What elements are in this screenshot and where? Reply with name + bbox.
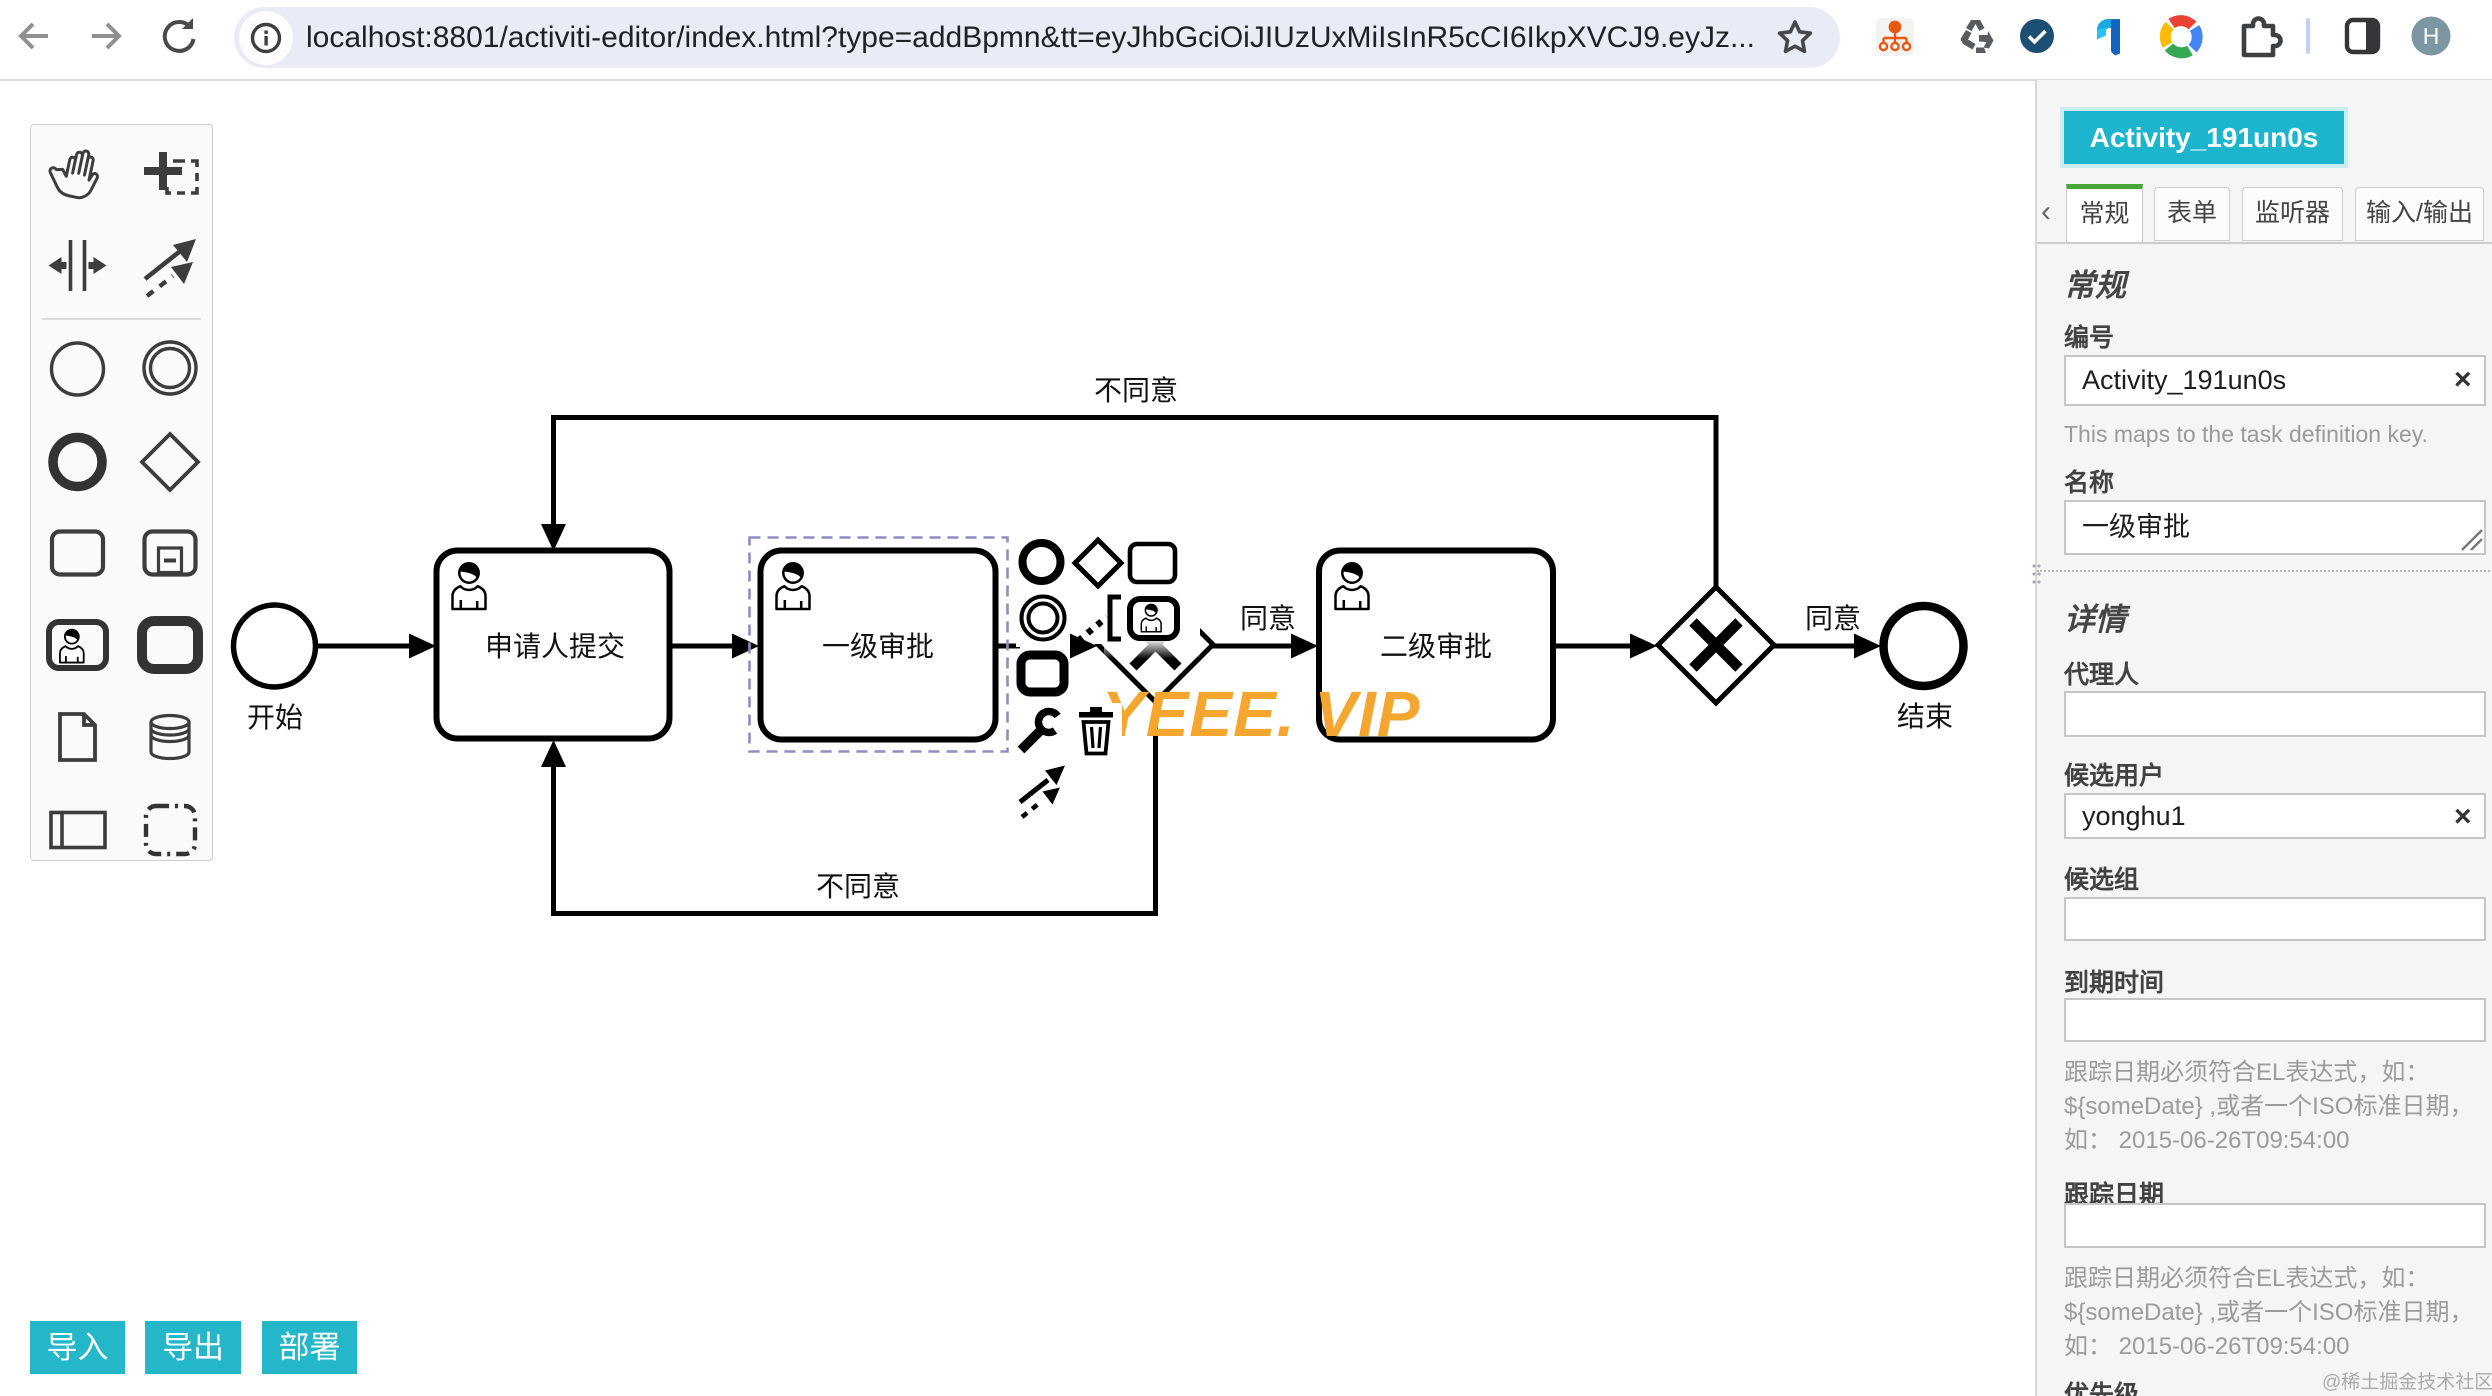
panel divider drag handle dots — [2030, 560, 2042, 590]
extension icon: org-chart (orange) — [1876, 18, 1914, 56]
palette: create participant — [51, 813, 105, 848]
section 详情 — [2064, 594, 2126, 639]
ctx: wrench (replace) — [1021, 711, 1058, 750]
user task 二级审批 — [1319, 551, 1553, 740]
palette: create user task — [49, 622, 106, 668]
ctx: trash (delete) — [1079, 707, 1113, 754]
section 常规 — [2064, 260, 2126, 305]
hint text 1 — [2064, 1056, 2492, 1158]
palette: create group — [146, 806, 195, 854]
forward arrow — [92, 24, 119, 48]
palette: create intermediate event — [144, 342, 196, 394]
field 到期时间 — [2064, 963, 2164, 999]
info icon in white circle — [239, 11, 293, 65]
field 编号 — [2064, 318, 2114, 354]
extension icon: chrome color wheel — [2165, 21, 2197, 53]
ctx: append end event — [1023, 543, 1061, 581]
palette tool: hand — [46, 145, 103, 201]
extension icon: recycle (grey) — [1961, 20, 1994, 53]
palette tool: lasso — [144, 152, 197, 193]
juejin watermark — [2322, 1367, 2492, 1394]
sequence flow: 二级审批 -> gateway2 — [1553, 634, 1657, 659]
ctx: append gateway — [1075, 540, 1121, 586]
svg-text:不同意: 不同意 — [1094, 375, 1178, 406]
sequence flow 不同意: gateway1 -> bottom -> 申请人提交 — [541, 700, 1156, 914]
extensions puzzle icon — [2244, 19, 2281, 56]
sequence flow 同意: gateway1 -> 二级审批 — [1212, 634, 1318, 659]
end event 结束 — [1884, 606, 1964, 686]
field 跟踪日期 — [2064, 1175, 2164, 1211]
field 代理人 — [2064, 655, 2139, 691]
svg-text:YEEE. VIP: YEEE. VIP — [1102, 678, 1420, 750]
user task 申请人提交 — [437, 551, 670, 739]
ctx: append task — [1130, 544, 1175, 582]
palette: create task — [52, 532, 103, 575]
field 候选组 — [2064, 860, 2139, 896]
hint text 2 — [2064, 1262, 2492, 1364]
header badge — [2064, 111, 2344, 164]
tab collapse chevron — [2041, 195, 2051, 229]
sequence flow: 申请人提交 -> 一级审批 — [670, 634, 759, 659]
bookmark star — [1780, 22, 1811, 51]
exclusive gateway 1 — [1098, 587, 1213, 702]
field 优先级 (cut off) — [2064, 1375, 2139, 1396]
selection outline (dashed) around 一级审批 — [750, 538, 1008, 752]
palette: create start event — [52, 343, 104, 395]
extension icon: blue ribbon 1 — [2097, 19, 2120, 56]
palette: create call activity — [142, 621, 198, 669]
reload icon — [165, 18, 194, 51]
palette: create subprocess — [145, 532, 196, 575]
start event 开始 — [234, 605, 316, 687]
svg-text:不同意: 不同意 — [816, 871, 900, 902]
svg-text:申请人提交: 申请人提交 — [485, 631, 625, 662]
palette tool: global connect — [145, 239, 196, 296]
back arrow — [21, 24, 48, 48]
sequence flow 不同意: gateway2 -> top -> 申请人提交 — [541, 418, 1716, 588]
separator — [2306, 18, 2310, 54]
svg-text:H: H — [2423, 23, 2440, 49]
svg-text:二级审批: 二级审批 — [1380, 631, 1492, 662]
palette: create end event — [53, 438, 102, 487]
user task 一级审批 — [761, 551, 996, 740]
url text — [306, 21, 1776, 57]
field 名称 — [2064, 463, 2114, 499]
palette tool: space — [49, 240, 107, 291]
ctx: dotted connect preview — [1078, 617, 1107, 641]
url pill — [234, 7, 1840, 68]
svg-text:同意: 同意 — [1240, 603, 1296, 634]
palette separator — [42, 318, 201, 320]
svg-text:一级审批: 一级审批 — [822, 631, 934, 662]
palette: create data object — [60, 714, 95, 760]
svg-text:结束: 结束 — [1897, 701, 1953, 732]
sequence flow: 一级审批 -> gateway1 — [996, 644, 1020, 649]
avatar H — [2412, 17, 2451, 56]
palette: create gateway — [142, 434, 198, 490]
dotted separator — [2037, 570, 2492, 572]
arrowhead into gateway1 — [1070, 634, 1097, 659]
ctx: call activity (thick rect) — [1021, 655, 1064, 692]
exclusive gateway 2 (X) — [1658, 587, 1774, 703]
extension icon: navy check-circle — [2020, 19, 2054, 53]
svg-text:开始: 开始 — [247, 702, 303, 733]
tabs — [2037, 242, 2492, 244]
palette: create data store — [151, 716, 189, 759]
side panel icon — [2347, 20, 2378, 52]
ctx: append user task preview [bracket + box] — [1110, 597, 1177, 639]
sequence flow 同意: gateway2 -> end — [1774, 634, 1881, 659]
ctx: append intermediate event — [1022, 597, 1065, 640]
field 候选用户 — [2064, 756, 2164, 792]
white pads — [1012, 534, 1200, 820]
ctx: connect tool arrows — [1020, 766, 1065, 818]
svg-text:同意: 同意 — [1805, 603, 1861, 634]
sequence flow: start -> 申请人提交 — [316, 634, 436, 659]
